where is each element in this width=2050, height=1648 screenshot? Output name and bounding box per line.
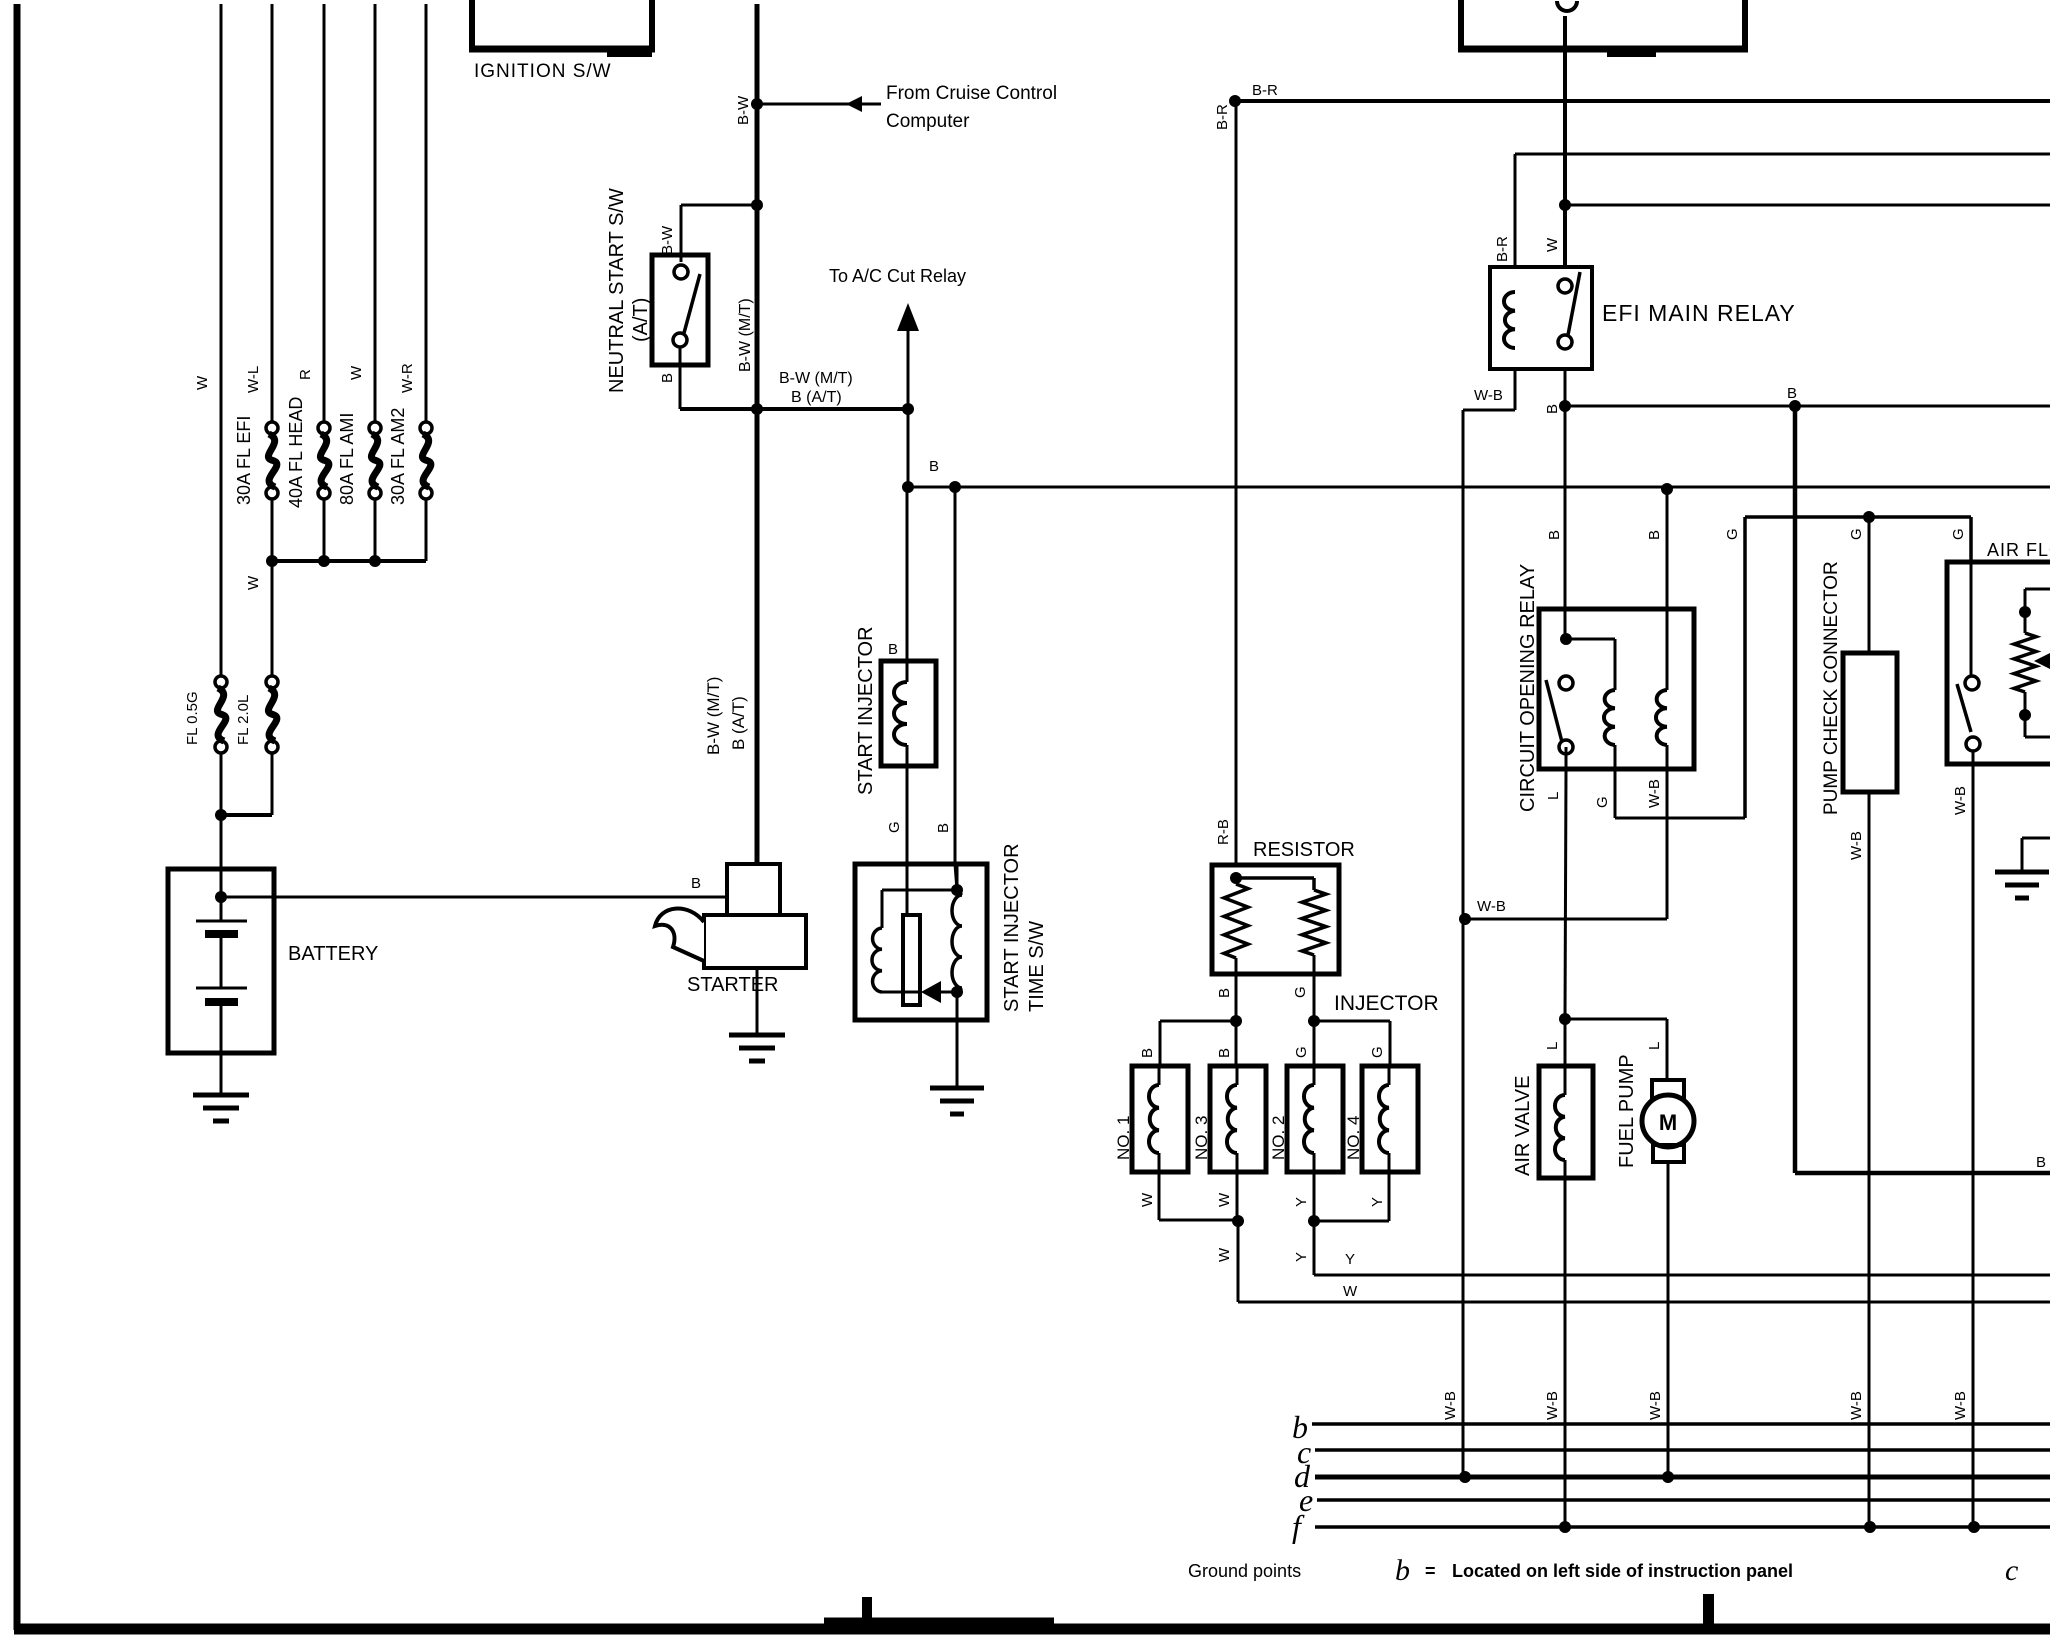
svg-text:NEUTRAL START S/W: NEUTRAL START S/W xyxy=(606,188,628,393)
svg-text:B-R: B-R xyxy=(1252,82,1278,99)
diagram page border (bottom) xyxy=(14,1594,2050,1629)
wire R-B down to resistor xyxy=(1215,101,1236,865)
ignition switch housing (C terminal section) xyxy=(1458,0,1748,57)
svg-text:B: B xyxy=(1216,1048,1233,1058)
svg-text:B: B xyxy=(935,823,952,833)
svg-text:START INJECTOR: START INJECTOR xyxy=(855,626,877,795)
svg-text:(A/T): (A/T) xyxy=(630,298,652,342)
wire W-B fuel pump to ground point d xyxy=(1647,1162,1668,1477)
svg-text:IGNITION S/W: IGNITION S/W xyxy=(474,61,612,82)
svg-text:G: G xyxy=(1594,796,1611,808)
wire bus B (main EFI feed) xyxy=(902,458,2050,493)
node G injector feed xyxy=(1293,992,1439,1066)
svg-text:B: B xyxy=(1646,530,1663,540)
svg-text:W: W xyxy=(245,575,262,590)
wire W-R feed xyxy=(399,4,426,422)
svg-text:=: = xyxy=(1425,1561,1436,1581)
svg-text:B-W (M/T): B-W (M/T) xyxy=(704,677,723,755)
node B injector feed xyxy=(1139,1015,1242,1066)
arrow to A/C cut relay xyxy=(829,266,966,409)
air valve xyxy=(1512,1019,1593,1178)
EFI main relay xyxy=(1490,267,1796,369)
svg-text:RESISTOR: RESISTOR xyxy=(1253,839,1355,861)
svg-text:R: R xyxy=(297,369,314,380)
svg-text:G: G xyxy=(886,821,903,833)
svg-text:Located on left side of instru: Located on left side of instruction pane… xyxy=(1452,1561,1793,1581)
wire B-W (M/T) / B (A/T) junction to A/C cut relay branch xyxy=(757,370,914,415)
wire Y to ECU (right) xyxy=(1314,1221,2050,1275)
svg-text:START INJECTOR: START INJECTOR xyxy=(1001,843,1023,1012)
neutral start switch S/W (A/T) xyxy=(606,188,708,393)
svg-text:W-B: W-B xyxy=(1474,387,1503,404)
air flow meter xyxy=(1947,540,2050,764)
svg-text:W-B: W-B xyxy=(1477,898,1506,915)
svg-text:AIR VALVE: AIR VALVE xyxy=(1512,1076,1534,1176)
ground (starter) xyxy=(729,1035,785,1061)
wire B to start injector xyxy=(888,487,907,661)
svg-text:NO. 3: NO. 3 xyxy=(1192,1116,1211,1160)
svg-text:Ground points: Ground points xyxy=(1188,1561,1301,1581)
wire B from neutral start switch xyxy=(659,298,763,415)
injector NO. 1 xyxy=(1114,1066,1188,1172)
svg-text:NO. 1: NO. 1 xyxy=(1114,1116,1133,1160)
ignition switch housing xyxy=(469,0,655,82)
svg-text:B: B xyxy=(888,641,898,658)
svg-text:B: B xyxy=(1216,988,1233,998)
svg-text:AIR FLOW: AIR FLOW xyxy=(1987,540,2050,560)
wire bus B (EFI relay output) xyxy=(1565,385,2050,412)
fusible link 80A FL AMI xyxy=(337,413,381,561)
svg-text:B: B xyxy=(1787,385,1797,402)
svg-text:B (A/T): B (A/T) xyxy=(791,389,842,406)
wire W main feed xyxy=(194,4,221,676)
wire down to B node xyxy=(907,409,910,487)
wire to neutral start switch xyxy=(659,199,763,262)
svg-text:e: e xyxy=(1299,1482,1313,1518)
svg-text:40A FL HEAD: 40A FL HEAD xyxy=(286,397,306,508)
fusible link 40A FL HEAD xyxy=(286,397,330,561)
wire bus B-R from ignition xyxy=(1214,82,2050,130)
injector NO. 3 xyxy=(1192,1066,1266,1172)
wire W-L feed xyxy=(245,4,272,422)
svg-text:To A/C Cut Relay: To A/C Cut Relay xyxy=(829,266,966,286)
wire R feed xyxy=(297,4,324,422)
wire W-B from EFI main relay coil xyxy=(1463,369,1515,410)
svg-text:Y: Y xyxy=(1293,1197,1310,1207)
svg-text:80A FL AMI: 80A FL AMI xyxy=(337,413,357,505)
ground (air flow meter) xyxy=(1995,838,2050,898)
svg-text:B-W (M/T): B-W (M/T) xyxy=(779,370,853,387)
svg-text:W: W xyxy=(1343,1283,1358,1300)
svg-text:L: L xyxy=(1544,1042,1561,1050)
start injector xyxy=(855,626,936,795)
svg-text:W: W xyxy=(1139,1192,1156,1207)
svg-text:R-B: R-B xyxy=(1215,819,1232,845)
svg-text:CIRCUIT OPENING RELAY: CIRCUIT OPENING RELAY xyxy=(1517,564,1539,812)
svg-text:B: B xyxy=(1544,404,1561,414)
fusible link 30A FL EFI xyxy=(234,416,278,561)
svg-text:B-R: B-R xyxy=(1494,236,1511,262)
node B-W / cruise control tap xyxy=(751,83,1057,132)
injector NO. 4 xyxy=(1344,1066,1418,1172)
legend: note b location xyxy=(1395,1554,1793,1587)
wire W-B air flow meter to ground point f xyxy=(1952,764,1973,1527)
ground point line b xyxy=(1292,1409,2050,1445)
svg-text:W: W xyxy=(194,375,211,390)
resistor (injector dropping resistor) xyxy=(1212,839,1355,1021)
svg-text:G: G xyxy=(1293,1046,1310,1058)
wire B right-edge drop xyxy=(1795,406,2050,1173)
svg-text:FL 2.0L: FL 2.0L xyxy=(235,695,252,745)
svg-text:FL 0.5G: FL 0.5G xyxy=(184,691,201,745)
svg-text:NO. 2: NO. 2 xyxy=(1269,1116,1288,1160)
wire B to start injector time switch xyxy=(935,487,957,890)
svg-text:W-B: W-B xyxy=(1646,779,1663,808)
svg-text:B-R: B-R xyxy=(1214,104,1231,130)
svg-text:PUMP CHECK CONNECTOR: PUMP CHECK CONNECTOR xyxy=(1821,561,1842,815)
svg-text:W: W xyxy=(1544,237,1561,252)
wire L from relay switch xyxy=(1545,747,1566,1019)
wire W-B pump check connector to ground point f xyxy=(1848,792,1869,1527)
svg-text:L: L xyxy=(1646,1042,1663,1050)
svg-text:L: L xyxy=(1545,792,1562,800)
svg-text:W-B: W-B xyxy=(1544,1391,1561,1420)
ground point line c xyxy=(1297,1434,2050,1470)
fusible link FL 2.0L xyxy=(235,676,278,815)
wire W from injectors NO.1/NO.3 xyxy=(1139,1172,1244,1262)
svg-text:EFI MAIN RELAY: EFI MAIN RELAY xyxy=(1602,300,1796,326)
ground point line f xyxy=(1292,1508,2050,1544)
svg-text:30A FL EFI: 30A FL EFI xyxy=(234,416,254,505)
svg-text:30A FL AM2: 30A FL AM2 xyxy=(388,408,408,505)
wire B from EFI main relay switch xyxy=(1544,369,1571,639)
fusible link 30A FL AM2 xyxy=(388,408,432,561)
wire W-B long run to ground point d xyxy=(1442,410,1463,1477)
svg-text:W-B: W-B xyxy=(1442,1391,1459,1420)
wire junction to battery xyxy=(215,809,272,869)
wire W feed (AM1) xyxy=(348,4,375,422)
battery BT1 xyxy=(168,869,378,1095)
injector NO. 2 xyxy=(1269,1066,1343,1172)
ground point line d xyxy=(1294,1458,2050,1494)
svg-text:G: G xyxy=(1369,1046,1386,1058)
svg-text:From Cruise Control: From Cruise Control xyxy=(886,83,1057,104)
wire G start injector to time switch xyxy=(886,766,907,915)
diagram page border (left) xyxy=(14,4,21,1630)
legend: c mark xyxy=(2005,1554,2018,1587)
svg-text:B: B xyxy=(1546,530,1563,540)
ground point line e xyxy=(1299,1482,2050,1518)
svg-text:W: W xyxy=(1216,1192,1233,1207)
pump check connector xyxy=(1821,561,1897,815)
svg-text:INJECTOR: INJECTOR xyxy=(1334,992,1439,1015)
wire B-W from ignition switch ST terminal xyxy=(735,4,757,864)
wire W-B from relay coil xyxy=(1459,745,1667,925)
starter motor M1 xyxy=(655,677,806,1035)
air flow meter potentiometer xyxy=(2014,589,2050,737)
wire Y from injectors NO.2/NO.4 xyxy=(1293,1172,1389,1262)
ground (battery) xyxy=(193,1095,249,1121)
svg-text:B: B xyxy=(691,875,701,892)
svg-text:B-W: B-W xyxy=(735,95,752,125)
svg-text:Y: Y xyxy=(1293,1252,1310,1262)
svg-text:G: G xyxy=(1724,528,1741,540)
svg-text:Y: Y xyxy=(1345,1251,1355,1268)
svg-text:FUEL PUMP: FUEL PUMP xyxy=(1616,1054,1638,1168)
svg-text:W-R: W-R xyxy=(399,363,416,393)
svg-text:B: B xyxy=(2036,1154,2046,1171)
svg-text:B-W: B-W xyxy=(659,225,676,255)
svg-text:b: b xyxy=(1395,1554,1410,1587)
svg-text:W-B: W-B xyxy=(1848,831,1865,860)
svg-text:G: G xyxy=(1950,528,1967,540)
svg-text:B: B xyxy=(929,458,939,475)
svg-text:G: G xyxy=(1292,986,1309,998)
fuel pump motor xyxy=(1616,1019,1694,1168)
svg-text:W-B: W-B xyxy=(1848,1391,1865,1420)
svg-text:W: W xyxy=(1216,1247,1233,1262)
svg-text:W-B: W-B xyxy=(1952,786,1969,815)
svg-text:STARTER: STARTER xyxy=(687,974,779,996)
svg-text:B: B xyxy=(659,373,676,383)
ground (start injector time switch) xyxy=(930,1088,984,1114)
svg-text:W: W xyxy=(348,365,365,380)
wire B-R branch to EFI main relay coil xyxy=(1494,154,2050,267)
svg-text:W-B: W-B xyxy=(1952,1391,1969,1420)
wire G to pump check connector xyxy=(1848,511,1875,653)
wire W from ignition C terminal xyxy=(1544,16,2050,267)
svg-text:B: B xyxy=(1139,1048,1156,1058)
wire G to air flow meter xyxy=(1950,517,1971,562)
svg-text:M: M xyxy=(1659,1110,1677,1135)
wire W-B air valve to ground point f xyxy=(1544,1178,1565,1527)
start injector time switch xyxy=(855,843,1048,1088)
svg-text:B (A/T): B (A/T) xyxy=(729,696,748,750)
svg-text:c: c xyxy=(2005,1554,2018,1587)
wire G from relay coil to air flow meter xyxy=(1594,517,1971,818)
svg-text:W-B: W-B xyxy=(1647,1391,1664,1420)
svg-text:W-L: W-L xyxy=(245,366,262,393)
svg-text:TIME S/W: TIME S/W xyxy=(1026,921,1048,1012)
circuit opening relay xyxy=(1517,564,1694,812)
svg-text:G: G xyxy=(1848,528,1865,540)
wire W to ECU (right) xyxy=(1238,1221,2050,1302)
wire B battery to starter xyxy=(221,875,726,897)
svg-text:NO. 4: NO. 4 xyxy=(1344,1116,1363,1160)
legend: ground points xyxy=(1188,1561,1301,1581)
node L air valve / fuel pump xyxy=(1544,1013,1667,1050)
wire B into circuit opening relay coil xyxy=(1546,483,1673,609)
svg-text:B-W (M/T): B-W (M/T) xyxy=(737,298,754,372)
svg-text:BATTERY: BATTERY xyxy=(288,943,378,965)
wire bus joining fuse outputs xyxy=(245,555,426,676)
fusible link FL 0.5G xyxy=(184,676,227,815)
svg-text:Y: Y xyxy=(1369,1197,1386,1207)
svg-text:Computer: Computer xyxy=(886,111,970,132)
